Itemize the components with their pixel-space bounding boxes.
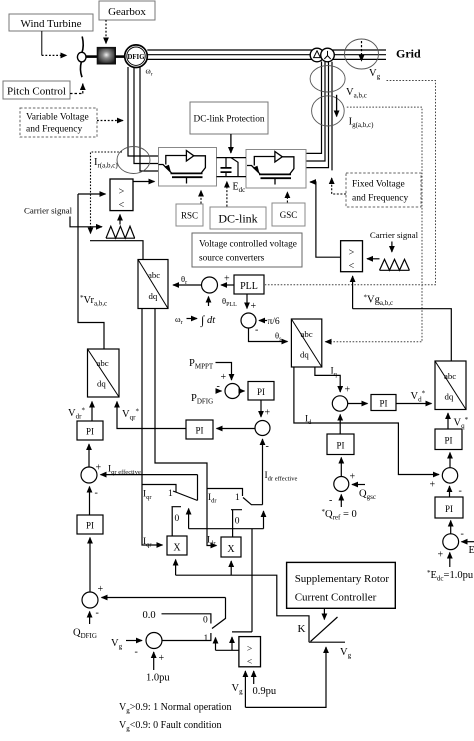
wire omega_r to integrator — [187, 318, 198, 320]
fixed voltage and frequency box — [346, 173, 421, 207]
wire Edc to S11 — [462, 541, 474, 543]
svg-text:RSC: RSC — [181, 211, 198, 221]
svg-text:dt: dt — [207, 315, 216, 326]
DC-link protection box — [190, 102, 268, 134]
switch SW3 contact 0 — [162, 614, 211, 624]
voltage controlled voltage source converters box — [192, 233, 302, 267]
svg-text:X: X — [173, 543, 181, 554]
svg-text:+: + — [221, 372, 227, 383]
wire Iqr from B1 down — [142, 309, 163, 546]
wire Ir signal into abc-dq block B1 — [90, 241, 143, 260]
svg-text:DFIG: DFIG — [128, 54, 146, 61]
svg-text:PI: PI — [86, 427, 94, 437]
svg-text:-: - — [95, 488, 98, 499]
svg-text:K: K — [298, 623, 306, 635]
wire comparator control bus — [189, 529, 264, 632]
wire control arrow SW3 — [215, 638, 217, 651]
wire B2 output up to comparator (*Vr a,b,c) — [78, 194, 104, 349]
PI block Vqr — [186, 420, 213, 439]
GSC label box — [272, 203, 305, 226]
wire P_MPPT to S3 — [216, 363, 232, 381]
wire PI_e to right block (Vd*) — [396, 403, 432, 405]
summing node S5 — [81, 467, 97, 483]
wire variable V and F to rotor lines (dashed) — [97, 120, 123, 122]
wire DC-link label up (dashed) — [226, 182, 228, 207]
wire PI_g to right block (Vq*) — [447, 413, 449, 429]
wire *Vr into comparator — [78, 193, 106, 195]
wire S4 to PI_c — [217, 428, 256, 430]
summing node S2 — [241, 313, 256, 328]
summing node S6 — [82, 592, 98, 608]
wire S3 to PI_d — [240, 390, 245, 392]
svg-text:Carrier signal: Carrier signal — [24, 206, 73, 216]
dq-abc block right (GSC voltage) — [435, 361, 466, 410]
RSC label box — [176, 204, 203, 226]
switch SW1 contact 1 — [142, 485, 176, 493]
wire comparator output to control bus — [216, 637, 239, 650]
svg-text:PLL: PLL — [240, 281, 258, 292]
wire S8 to PI_e — [348, 403, 368, 405]
svg-text:+: + — [96, 463, 102, 474]
multiplier X2 — [221, 537, 241, 557]
svg-text:Wind Turbine: Wind Turbine — [21, 18, 82, 30]
wire PI_a to B2 (Vdr*) — [91, 402, 93, 422]
wire S10 up to PI_g — [449, 453, 451, 468]
wire triangle to comparator — [119, 215, 121, 225]
svg-text:PI: PI — [445, 504, 453, 514]
Ig direction arrow — [336, 95, 338, 117]
wire P_DFIG to S3 — [216, 390, 222, 392]
wire gain to X2 — [230, 561, 232, 575]
svg-text:∫: ∫ — [200, 313, 205, 327]
PI block Edc loop — [435, 497, 463, 518]
svg-text:-: - — [96, 608, 99, 619]
comparator bottom (Vg fault detect) — [239, 637, 261, 668]
wire carrier to triangle — [70, 217, 102, 227]
DC-link label box — [210, 207, 266, 229]
svg-text:source converters: source converters — [199, 254, 265, 264]
svg-text:PI: PI — [379, 399, 387, 409]
svg-text:+: + — [251, 301, 257, 312]
summing node S8 — [332, 396, 347, 411]
svg-text:-: - — [255, 325, 258, 336]
svg-text:X: X — [227, 544, 235, 555]
wire integrator to S1 — [208, 297, 210, 307]
svg-text:Current Controller: Current Controller — [295, 592, 377, 604]
svg-text:DC-link: DC-link — [218, 212, 257, 226]
svg-text:Supplementary Rotor: Supplementary Rotor — [295, 573, 390, 585]
Vabc measurement ellipse — [310, 66, 345, 92]
PI block Vq — [435, 429, 462, 450]
wire 1.0pu to S7 — [153, 652, 155, 670]
svg-text:dq: dq — [445, 392, 454, 402]
wire S6 to PI_b — [89, 538, 91, 593]
wire Iqr effective to S5 — [101, 474, 198, 476]
Vg measurement arrow (dashed) — [361, 41, 363, 61]
wire PLL down to S2 — [246, 294, 248, 309]
chopper switch — [231, 158, 238, 177]
svg-text:Vg<0.9: 0 Fault condition: Vg<0.9: 0 Fault condition — [119, 720, 221, 733]
svg-text:1: 1 — [204, 634, 209, 644]
rotor lines DFIG down to RSC — [128, 67, 159, 171]
shaft gearbox to DFIG — [115, 55, 125, 58]
svg-text:and Frequency: and Frequency — [26, 125, 82, 135]
wire gain to X1 — [175, 560, 177, 576]
Vg measurement ellipse — [345, 39, 379, 69]
svg-text:<: < — [349, 261, 355, 272]
wire PI_b to S5 — [89, 487, 91, 516]
svg-text:-: - — [135, 647, 138, 658]
svg-text:+: + — [265, 408, 271, 419]
svg-text:+: + — [438, 550, 444, 561]
switch SW2 contact 0 — [231, 510, 242, 537]
svg-text:and Frequency: and Frequency — [352, 194, 408, 204]
switch SW3 contact 1 — [162, 633, 211, 641]
wind turbine rotor blades — [80, 37, 83, 78]
switch SW2 arm — [243, 498, 263, 505]
summing node S10 — [442, 468, 457, 483]
svg-text:<: < — [119, 200, 125, 211]
wire gain bus to K switch pole — [176, 575, 309, 642]
svg-text:PI: PI — [86, 521, 94, 531]
wire control link to bus — [232, 631, 252, 633]
svg-text:dq: dq — [97, 379, 106, 389]
summing node S9 — [334, 477, 349, 492]
GSC converter box — [246, 150, 306, 189]
wire Vg run to K switch — [245, 647, 326, 707]
wire PI_f up to S8 — [339, 415, 341, 435]
wire Vg to S7 — [126, 640, 142, 642]
wire comparator to RSC — [133, 181, 155, 183]
svg-text:>: > — [247, 645, 252, 655]
wire pitch control to blade (dashed) — [70, 84, 83, 94]
abc-dq block stator (Id Iq) — [291, 319, 321, 367]
wire SW2 pole up to S4 (Idr effective) — [262, 439, 264, 505]
PI block Q_DFIG loop — [77, 515, 103, 534]
svg-text:+: + — [98, 584, 104, 595]
svg-text:+: + — [430, 480, 436, 491]
PI block Iq loop — [371, 395, 396, 411]
IGBT with diode inside RSC — [159, 151, 206, 184]
wire PI_c to B2 (Vqr*) — [117, 402, 186, 429]
stator grid lines — [147, 50, 386, 59]
wire S2 to stator abc-dq (theta_s) — [249, 328, 288, 342]
svg-text:abc: abc — [148, 270, 160, 280]
svg-text:1: 1 — [168, 489, 173, 499]
svg-text:>: > — [119, 187, 125, 198]
summing node S3 — [225, 384, 240, 399]
summing node S4 — [255, 421, 270, 436]
wind turbine hub — [77, 52, 86, 62]
svg-text:>: > — [349, 248, 355, 259]
svg-text:GSC: GSC — [280, 210, 298, 220]
switch K pole and arm — [309, 617, 345, 642]
switch SW1 contact 0 — [172, 507, 182, 536]
RSC converter box — [159, 148, 217, 187]
wire carrier down to triangle right — [391, 242, 393, 253]
pitch control box — [3, 81, 70, 99]
Ir measurement ellipse — [117, 147, 150, 174]
wire *Qref to S9 — [340, 495, 342, 508]
switch SW1 arm — [173, 491, 198, 501]
svg-text:PI: PI — [257, 387, 265, 397]
dq-abc block B2 (rotor voltage) — [88, 349, 120, 397]
svg-text:π/6: π/6 — [268, 317, 280, 327]
svg-text:dq: dq — [149, 291, 158, 301]
wire supplementary controller to K switch — [323, 609, 325, 620]
gearbox label box — [99, 1, 155, 20]
summing node S7 — [146, 633, 162, 649]
wire Idr from B1 down — [155, 309, 217, 546]
svg-text:0: 0 — [203, 616, 208, 626]
wire comparator right to GSC — [310, 182, 341, 257]
svg-text:Variable Voltage: Variable Voltage — [26, 113, 89, 123]
svg-text:Pitch Control: Pitch Control — [7, 86, 66, 98]
svg-text:DC-link Protection: DC-link Protection — [193, 115, 264, 125]
wire theta_r into B1 — [173, 284, 202, 286]
wire *Edc to S11 — [449, 553, 451, 568]
PLL block — [234, 275, 264, 294]
svg-text:-: - — [329, 495, 332, 506]
summing node S11 — [443, 534, 459, 550]
svg-text:Grid: Grid — [396, 47, 421, 61]
wire control arrow SW2 — [263, 511, 265, 529]
gearbox block — [98, 48, 116, 64]
svg-text:Vg>0.9: 1 Normal operation: Vg>0.9: 1 Normal operation — [119, 702, 231, 715]
carrier triangle wave right — [380, 259, 410, 270]
svg-text:-: - — [459, 486, 462, 497]
Ig measurement ellipse — [312, 96, 345, 126]
wire S5 up to PI_a — [88, 444, 90, 467]
svg-text:-: - — [217, 381, 220, 392]
svg-text:0.9pu: 0.9pu — [253, 686, 277, 697]
supplementary rotor current controller box — [287, 562, 396, 608]
wire right dq-abc block to *Vg — [353, 309, 452, 361]
svg-text:abc: abc — [444, 371, 456, 381]
wire 0.9pu input comparator — [253, 671, 255, 684]
IGBT with diode inside GSC — [247, 152, 294, 185]
svg-text:PI: PI — [336, 441, 344, 451]
DFIG machine — [125, 45, 148, 68]
svg-text:-: - — [266, 441, 269, 452]
wind turbine label box — [9, 14, 93, 31]
svg-text:abc: abc — [97, 358, 109, 368]
svg-text:Gearbox: Gearbox — [108, 6, 146, 18]
wire protection to chopper — [230, 134, 232, 153]
comparator right (GSC PWM) — [341, 241, 363, 272]
wire S11 up to PI_h — [450, 521, 452, 534]
DC bus wires — [217, 158, 247, 177]
wire Iq from stator block to S8 — [315, 367, 340, 392]
svg-text:0: 0 — [175, 514, 180, 524]
switch SW2 contact 1 — [207, 489, 243, 497]
carrier triangle wave left — [106, 226, 135, 238]
shaft hub to gearbox — [86, 55, 98, 58]
wire SW1 pole to Iqr effective — [197, 475, 199, 501]
wire Ir dotted measurement tap — [91, 152, 123, 234]
wire control arrow SW1 — [188, 509, 190, 529]
svg-text:abc: abc — [301, 329, 313, 339]
abc-dq block B1 (rotor current) — [138, 260, 168, 309]
svg-text:*Edc=1.0pu: *Edc=1.0pu — [427, 569, 474, 583]
wire triangle to comparator right — [367, 258, 380, 260]
wire *Vg up into comparator right — [352, 276, 354, 309]
wire PLL to S1 — [221, 284, 234, 286]
svg-text:E: E — [469, 545, 474, 556]
wire Ig dashed feedback to stator abc-dq block — [327, 107, 422, 342]
PI block Vdr — [77, 421, 103, 440]
multiplier X1 — [167, 536, 187, 555]
svg-text:-: - — [461, 529, 464, 540]
svg-text:Voltage controlled voltage: Voltage controlled voltage — [199, 240, 297, 250]
svg-text:+: + — [224, 274, 230, 285]
wire Qgsc to S9 — [352, 484, 365, 486]
wire PI_d to S4 — [260, 400, 262, 417]
wire pi/6 to S2 — [259, 320, 267, 322]
wire gearbox label down (dotted) — [105, 20, 107, 44]
svg-text:<: < — [247, 658, 252, 668]
switch SW3 arm and pole — [212, 598, 226, 629]
svg-text:PI: PI — [444, 436, 452, 446]
svg-text:1.0pu: 1.0pu — [146, 673, 170, 684]
wire Qref switch to S6 — [102, 597, 226, 599]
PI block P-loop — [248, 382, 274, 401]
DC-link capacitor C — [221, 158, 232, 177]
wire Vg input comparator — [244, 671, 246, 707]
summing node S1 — [202, 277, 218, 293]
svg-text:+: + — [350, 472, 356, 483]
svg-text:0.0: 0.0 — [143, 610, 156, 621]
wire Id from stator block to S10 — [294, 367, 439, 474]
svg-text:0: 0 — [235, 517, 240, 527]
wire GSC label up (dashed) — [286, 192, 288, 203]
svg-text:1: 1 — [235, 493, 240, 503]
svg-text:Fixed Voltage: Fixed Voltage — [352, 180, 405, 190]
variable voltage and frequency box — [20, 108, 97, 137]
wire wind turbine label to hub (dotted) — [41, 31, 43, 55]
comparator left (PWM) — [110, 179, 133, 211]
svg-text:+: + — [345, 385, 351, 396]
svg-text:Carrier signal: Carrier signal — [370, 230, 419, 240]
wire RSC label up (dashed) — [200, 191, 202, 204]
wire fixed VF to feeder (dashed) — [332, 178, 346, 194]
wire S9 up to PI_f — [340, 458, 342, 477]
PI block Qgsc loop — [327, 434, 354, 455]
svg-text:dq: dq — [300, 350, 309, 360]
svg-text:+: + — [159, 653, 165, 664]
transformer delta-wye — [310, 48, 334, 62]
stator vertical feeders under transformer — [306, 62, 332, 171]
wire PI_h up to S10 — [449, 486, 451, 497]
wire Q_DFIG into S6 — [89, 612, 91, 625]
wire Vg dashed feedback to PLL — [265, 81, 436, 285]
svg-text:PI: PI — [195, 426, 203, 436]
